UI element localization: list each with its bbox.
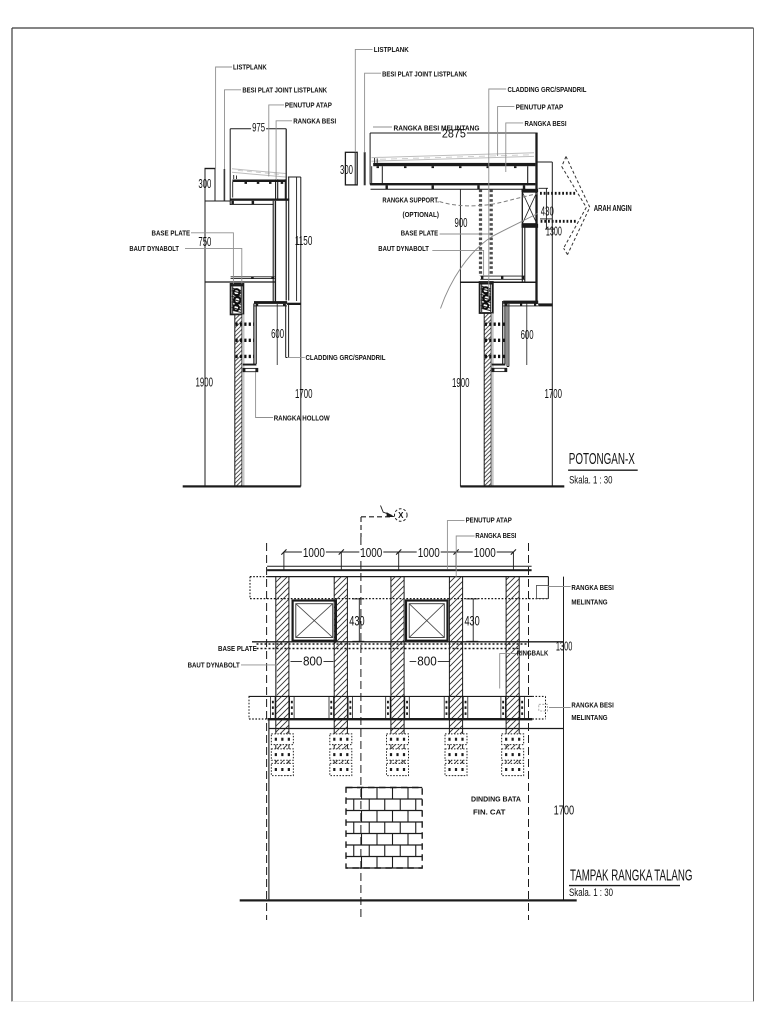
svg-text:TAMPAK RANGKA TALANG: TAMPAK RANGKA TALANG (570, 868, 693, 885)
svg-text:BASE PLATE: BASE PLATE (152, 228, 191, 237)
svg-text:600: 600 (271, 327, 284, 341)
svg-text:RANGKA HOLLOW: RANGKA HOLLOW (274, 413, 330, 422)
svg-text:Skala. 1 : 30: Skala. 1 : 30 (569, 887, 613, 899)
svg-text:BAUT DYNABOLT: BAUT DYNABOLT (378, 244, 429, 253)
svg-text:1900: 1900 (452, 376, 470, 390)
svg-text:1300: 1300 (556, 638, 573, 653)
svg-text:FIN. CAT: FIN. CAT (473, 808, 506, 817)
svg-text:BESI PLAT JOINT LISTPLANK: BESI PLAT JOINT LISTPLANK (242, 86, 327, 95)
svg-text:800: 800 (417, 654, 437, 669)
svg-text:POTONGAN-X: POTONGAN-X (569, 451, 635, 468)
svg-text:430: 430 (349, 614, 364, 629)
svg-text:RANGKA BESI: RANGKA BESI (475, 531, 516, 540)
svg-text:X: X (398, 511, 404, 520)
svg-text:1700: 1700 (554, 802, 575, 817)
svg-text:BAUT DYNABOLT: BAUT DYNABOLT (129, 244, 179, 253)
svg-text:RANGKA SUPPORT.: RANGKA SUPPORT. (382, 195, 439, 204)
svg-text:1000: 1000 (474, 545, 496, 560)
svg-text:MELINTANG: MELINTANG (571, 713, 607, 722)
svg-text:(OPTIONAL): (OPTIONAL) (403, 210, 440, 219)
svg-text:RANGKA BESI MELINTANG: RANGKA BESI MELINTANG (394, 123, 480, 132)
svg-text:300: 300 (340, 163, 353, 177)
svg-text:ARAH ANGIN: ARAH ANGIN (594, 204, 632, 213)
svg-text:LISTPLANK: LISTPLANK (374, 45, 410, 54)
svg-text:CLADDING GRC/SPANDRIL: CLADDING GRC/SPANDRIL (508, 85, 588, 94)
svg-text:1000: 1000 (360, 545, 382, 560)
svg-text:750: 750 (198, 235, 211, 249)
svg-text:900: 900 (455, 216, 468, 230)
svg-text:DINDING BATA: DINDING BATA (471, 795, 521, 804)
svg-text:PENUTUP ATAP: PENUTUP ATAP (516, 103, 564, 112)
svg-text:RANGKA BESI: RANGKA BESI (525, 119, 567, 128)
svg-text:800: 800 (303, 654, 323, 669)
svg-text:1700: 1700 (545, 387, 563, 401)
svg-text:BASE PLATE: BASE PLATE (218, 644, 257, 653)
svg-text:1000: 1000 (418, 545, 440, 560)
svg-text:MELINTANG: MELINTANG (571, 598, 607, 607)
svg-text:1000: 1000 (303, 545, 325, 560)
svg-text:RANGKA BESI: RANGKA BESI (571, 583, 613, 592)
svg-text:BASE PLATE: BASE PLATE (401, 229, 439, 238)
svg-text:1700: 1700 (295, 387, 313, 401)
svg-text:PENUTUP ATAP: PENUTUP ATAP (466, 515, 512, 524)
svg-text:RANGKA BESI: RANGKA BESI (571, 701, 613, 710)
svg-text:RINGBALK: RINGBALK (517, 649, 549, 658)
svg-text:1900: 1900 (196, 375, 214, 389)
svg-text:BESI PLAT JOINT LISTPLANK: BESI PLAT JOINT LISTPLANK (382, 69, 468, 78)
svg-text:PENUTUP ATAP: PENUTUP ATAP (285, 101, 332, 110)
svg-text:RANGKA BESI: RANGKA BESI (293, 117, 336, 126)
svg-text:975: 975 (252, 123, 265, 135)
svg-text:430: 430 (541, 205, 554, 219)
svg-text:430: 430 (464, 614, 479, 629)
svg-text:1150: 1150 (295, 234, 313, 248)
svg-text:1300: 1300 (546, 225, 562, 239)
svg-text:Skala. 1 : 30: Skala. 1 : 30 (569, 475, 612, 487)
svg-text:2875: 2875 (442, 129, 466, 141)
svg-text:300: 300 (198, 177, 211, 191)
svg-text:LISTPLANK: LISTPLANK (233, 63, 267, 72)
svg-text:BAUT DYNABOLT: BAUT DYNABOLT (188, 660, 240, 669)
svg-text:CLADDING GRC/SPANDRIL: CLADDING GRC/SPANDRIL (306, 353, 387, 362)
svg-text:600: 600 (521, 328, 534, 342)
